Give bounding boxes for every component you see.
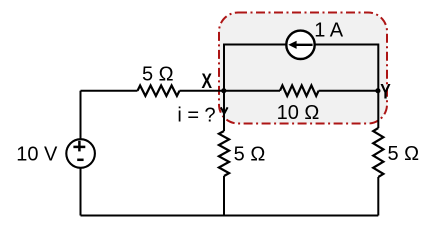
wire: node X down to resistor R3 (223, 91, 225, 131)
wire: voltage source down to bottom-left corner (80, 168, 82, 216)
highlight region (red dash-dot rounded box with gray fill) (219, 13, 387, 124)
resistor R4 5 ohm (right vertical) (373, 128, 383, 177)
wire: resistor R4 down to bottom-right corner (377, 177, 379, 216)
svg-text:5 Ω: 5 Ω (234, 144, 266, 166)
svg-text:5 Ω: 5 Ω (142, 64, 174, 86)
wire: resistor R3 down to bottom wire (223, 176, 225, 216)
wire: resistor R2 to node Y (319, 90, 378, 92)
svg-text:1 A: 1 A (314, 20, 344, 42)
svg-text:10 V: 10 V (16, 143, 58, 165)
wire: bottom horizontal (81, 215, 379, 217)
voltage source V1 10 V (66, 139, 95, 168)
wire: resistor R1 to node X (180, 90, 224, 92)
svg-text:10 Ω: 10 Ω (277, 102, 320, 124)
resistor R1 5 ohm (top horizontal) (138, 86, 180, 96)
wire: node X to resistor R2 (224, 90, 280, 92)
wire: left vertical from top-left corner to voltage source (80, 91, 82, 140)
current source I1 1 A (circle with left arrow) (286, 31, 314, 59)
current direction arrow (down) on wire below node X (221, 107, 228, 113)
node Y junction dot (375, 88, 380, 93)
svg-text:5 Ω: 5 Ω (387, 143, 419, 165)
wire: current source to inner loop top-right corner down to node Y (315, 45, 378, 91)
wire: top-left horizontal from left corner to resistor R1 (81, 90, 138, 92)
svg-text:Y: Y (380, 79, 391, 103)
wire: node Y down to resistor R4 (377, 91, 379, 128)
resistor R2 10 ohm (middle horizontal) (280, 85, 319, 96)
svg-text:X: X (202, 69, 213, 93)
wire: inner loop left vertical and top-left segment to current source (224, 45, 286, 91)
resistor R3 5 ohm (left vertical) (219, 131, 229, 176)
node X junction dot (221, 88, 226, 93)
svg-text:i = ?: i = ? (177, 105, 215, 127)
